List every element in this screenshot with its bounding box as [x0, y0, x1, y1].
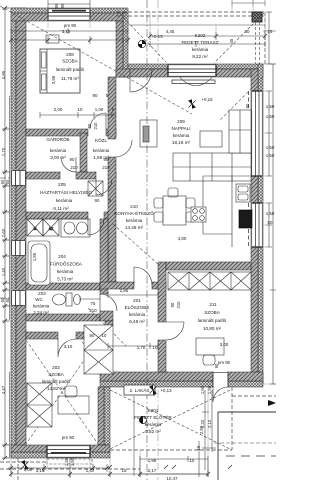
svg-text:6,48 m²: 6,48 m²	[129, 319, 145, 324]
svg-text:2,10: 2,10	[207, 419, 212, 428]
kitchen counter right	[203, 176, 251, 247]
door entry	[213, 387, 228, 402]
dining table kitchen	[163, 196, 186, 225]
wall left exterior	[11, 8, 16, 458]
dim right margin column	[266, 12, 272, 64]
terrace top dim stub	[232, 0, 265, 6]
desk bedroom211	[196, 338, 224, 355]
wall top of living room	[128, 64, 263, 69]
svg-text:kerámia: kerámia	[33, 304, 50, 309]
svg-text:210: 210	[70, 165, 78, 170]
svg-text:209: 209	[177, 119, 185, 124]
svg-text:205: 205	[58, 182, 66, 187]
svg-text:kerámia: kerámia	[93, 148, 110, 153]
svg-text:15: 15	[122, 468, 127, 473]
svg-text:kerámia: kerámia	[173, 133, 190, 138]
svg-text:90: 90	[93, 93, 98, 98]
extension lines right	[263, 64, 276, 384]
door utility-bath	[88, 219, 104, 235]
chair bedroom202	[65, 386, 77, 397]
svg-text:3,00 m²: 3,00 m²	[50, 155, 66, 160]
svg-text:SZOBA: SZOBA	[62, 59, 79, 64]
svg-text:KÖZL: KÖZL	[95, 137, 107, 143]
wall eloszoba west vertical	[100, 219, 108, 294]
svg-text:2,85: 2,85	[120, 288, 129, 293]
wall right exterior	[258, 64, 263, 384]
svg-text:4,45: 4,45	[166, 29, 175, 34]
svg-text:kerámia: kerámia	[145, 422, 162, 427]
dim interior eloszoba	[108, 292, 158, 298]
svg-text:1,75: 1,75	[1, 147, 6, 156]
door terrace to living	[130, 69, 152, 92]
dim right window lines	[266, 64, 276, 384]
washer bath	[27, 219, 43, 236]
svg-text:3,10: 3,10	[62, 29, 71, 34]
section line vertical B	[157, 0, 159, 480]
dim interior bath-wc line	[80, 296, 100, 302]
svg-text:202: 202	[52, 365, 60, 370]
terrace hip dashed left	[120, 14, 166, 62]
svg-text:3,00: 3,00	[220, 342, 229, 347]
bed room208	[40, 49, 80, 93]
svg-text:1,85: 1,85	[32, 252, 37, 261]
wall bedroom202 north	[26, 332, 58, 339]
cooktop	[191, 207, 206, 222]
svg-text:210: 210	[89, 308, 97, 313]
bath double sink	[61, 219, 90, 237]
svg-text:laminált padló: laminált padló	[56, 67, 85, 72]
door entry opening	[213, 372, 228, 388]
svg-text:K201: K201	[148, 408, 159, 413]
svg-text:1,40: 1,40	[1, 267, 6, 276]
svg-text:HÁZTARTÁSI HELYISÉG: HÁZTARTÁSI HELYISÉG	[40, 189, 93, 195]
svg-text:60: 60	[268, 220, 273, 225]
svg-text:4,80: 4,80	[178, 236, 187, 241]
svg-text:1,50: 1,50	[70, 457, 75, 466]
wall wc south	[26, 314, 100, 321]
svg-text:10,47: 10,47	[167, 476, 179, 480]
roof eave dashed bottom right	[232, 395, 276, 397]
svg-text:3,10: 3,10	[64, 344, 73, 349]
svg-text:SZOBA: SZOBA	[204, 310, 221, 315]
wall corridor vertical kitchen-west	[108, 77, 116, 139]
terrace right dashed edge	[264, 12, 266, 64]
svg-text:2,60: 2,60	[1, 228, 6, 237]
svg-text:90: 90	[104, 157, 109, 162]
bottom-left terrace dashes	[0, 458, 46, 480]
window living-room top (terrace sliding door)	[168, 64, 216, 77]
window utility left small	[11, 170, 26, 186]
terrace column axis dashes	[256, 22, 260, 64]
svg-text:1,50: 1,50	[266, 153, 275, 158]
svg-text:3,98: 3,98	[51, 75, 56, 84]
wall vertical terrace-side	[123, 13, 128, 77]
svg-text:90: 90	[245, 103, 250, 108]
wall eloszoba north / kitchen south	[100, 282, 134, 289]
svg-text:laminált padló: laminált padló	[198, 318, 227, 323]
svg-text:95: 95	[54, 3, 59, 8]
svg-text:ELŐSZOBA: ELŐSZOBA	[125, 304, 151, 310]
wardrobe bedroom202	[27, 383, 52, 427]
svg-text:1,50: 1,50	[207, 385, 212, 394]
right margin line y31	[263, 30, 276, 32]
svg-text:FÜRDŐSZOBA: FÜRDŐSZOBA	[50, 261, 83, 267]
dim interior bedroom208	[40, 112, 116, 118]
svg-text:1,00: 1,00	[24, 467, 33, 472]
door kozl	[90, 113, 106, 129]
terrace roof edge dashed top	[116, 12, 265, 16]
svg-text:60: 60	[5, 179, 10, 184]
svg-text:210: 210	[130, 204, 138, 209]
door bedroom211	[166, 322, 184, 340]
roof hip diagonal from top-left corner	[0, 6, 192, 114]
svg-text:90: 90	[87, 123, 92, 128]
svg-text:pm 90: pm 90	[64, 23, 77, 28]
svg-text:KONYHA-ÉTKEZŐ: KONYHA-ÉTKEZŐ	[114, 210, 154, 216]
svg-text:95: 95	[60, 3, 65, 8]
window bath left small	[11, 240, 26, 256]
wall utility south / bath north	[26, 212, 88, 219]
section symbol bottom	[139, 416, 146, 423]
svg-text:kerámia: kerámia	[129, 312, 146, 317]
svg-text:SZOBA: SZOBA	[48, 372, 65, 377]
utility appliances	[88, 181, 103, 196]
window bedroom208 top	[48, 8, 90, 21]
terrace column	[252, 12, 262, 22]
wall south of bedroom 211	[100, 381, 263, 387]
benchmark symbol terrace	[138, 40, 146, 48]
dim chain top	[11, 36, 265, 40]
svg-text:kerámia: kerámia	[192, 47, 209, 52]
bench room208	[46, 35, 59, 43]
toilet wc	[66, 293, 72, 306]
svg-text:10: 10	[78, 107, 83, 112]
tv cabinet living	[140, 120, 157, 147]
svg-text:kerámia: kerámia	[57, 269, 74, 274]
svg-text:GARDRÓB: GARDRÓB	[46, 136, 69, 142]
door eloszoba-kitchen	[134, 267, 152, 285]
svg-text:15: 15	[196, 445, 201, 450]
svg-text:90: 90	[95, 198, 100, 203]
window sliding panel below wall	[172, 80, 215, 83]
svg-text:SZ: SZ	[49, 227, 54, 231]
window living-room right large	[251, 91, 263, 176]
svg-text:+0,13: +0,13	[160, 388, 172, 393]
extension lines top	[11, 3, 265, 33]
svg-text:kerámia: kerámia	[50, 148, 67, 153]
dim second top row	[11, 28, 265, 47]
svg-text:1,00: 1,00	[95, 107, 104, 112]
wall top-left exterior	[11, 8, 128, 13]
svg-text:WC: WC	[35, 297, 43, 302]
svg-text:1,50: 1,50	[64, 457, 69, 466]
porch hip dashed X	[110, 390, 230, 449]
window sill dashed below	[47, 459, 92, 464]
svg-text:K202: K202	[195, 33, 206, 38]
desk bedroom202	[58, 396, 89, 414]
wall gardrob-kozl divider	[80, 133, 87, 172]
dim line top margin y3	[48, 0, 90, 8]
svg-text:90: 90	[170, 302, 175, 307]
svg-text:45: 45	[229, 38, 234, 43]
elevation marker porch	[150, 385, 157, 395]
extension lines left	[2, 8, 11, 458]
dryer bath	[43, 219, 59, 236]
svg-text:11,78 m²: 11,78 m²	[61, 76, 79, 81]
neighbour hidden line right	[214, 442, 276, 444]
svg-text:30: 30	[245, 29, 250, 34]
terrace floor edge line	[128, 24, 265, 26]
svg-text:5,73 m²: 5,73 m²	[57, 277, 73, 282]
dining chairs	[154, 198, 163, 208]
dim bottom chains	[8, 464, 110, 472]
svg-text:210: 210	[93, 122, 98, 130]
chair bedroom211	[203, 355, 215, 365]
svg-text:2,90: 2,90	[199, 425, 204, 434]
svg-text:4,47: 4,47	[1, 385, 6, 394]
label apartment2 box	[124, 385, 155, 395]
svg-text:210: 210	[102, 165, 110, 170]
svg-text:15: 15	[190, 458, 195, 463]
svg-text:90: 90	[90, 333, 95, 338]
svg-text:1,50: 1,50	[266, 211, 275, 216]
svg-text:18,16 m²: 18,16 m²	[172, 140, 191, 145]
svg-text:2,17: 2,17	[148, 468, 157, 473]
svg-text:2,34 m²: 2,34 m²	[33, 310, 49, 315]
wall bath/wc divider	[26, 283, 100, 290]
svg-text:+0,15: +0,15	[201, 97, 213, 102]
svg-text:15: 15	[268, 29, 273, 34]
wall bedroom211 north	[166, 262, 251, 270]
svg-text:9,22 m²: 9,22 m²	[192, 54, 208, 59]
dim porch vertical lines	[202, 390, 216, 470]
roof hip living right	[220, 77, 263, 120]
fridge dark kitchen	[239, 210, 252, 228]
bottom eave dashed long	[0, 468, 140, 470]
svg-text:10: 10	[102, 333, 107, 338]
svg-text:201: 201	[133, 298, 141, 303]
svg-text:6,11 m²: 6,11 m²	[53, 206, 69, 211]
wall bottom-left exterior	[11, 452, 110, 458]
roof hip entry X	[82, 342, 113, 374]
window swing arc below	[180, 78, 212, 86]
neighbour centreline dashed	[226, 455, 276, 457]
wall gardrob south	[26, 172, 60, 179]
svg-text:laminált padló: laminált padló	[42, 379, 71, 384]
svg-text:FEDETT ELŐTÉR: FEDETT ELŐTÉR	[134, 414, 172, 420]
svg-text:1,50: 1,50	[266, 104, 275, 109]
svg-text:1,50: 1,50	[266, 114, 275, 119]
dim bottom row far	[11, 471, 208, 477]
gutter arrow marker right	[268, 400, 276, 406]
svg-text:+0,13: +0,13	[151, 34, 163, 39]
elevation marker living	[189, 99, 196, 109]
door gardrob	[61, 157, 76, 172]
svg-text:1,50: 1,50	[266, 145, 275, 150]
window bedroom202 bottom	[47, 445, 90, 458]
svg-text:60: 60	[5, 297, 10, 302]
svg-text:210: 210	[176, 301, 181, 309]
sink kitchen	[236, 184, 250, 202]
svg-text:1,70: 1,70	[137, 345, 146, 350]
neighbour building outline bottom-right	[218, 412, 276, 480]
bathtub	[28, 241, 50, 285]
svg-text:NAPPALI: NAPPALI	[171, 126, 190, 131]
svg-text:211: 211	[209, 302, 217, 307]
svg-text:1,50: 1,50	[200, 385, 205, 394]
wardrobe row bedroom211	[168, 272, 251, 290]
sofa living right	[229, 110, 251, 153]
door wc	[100, 294, 117, 311]
section line vertical A	[146, 0, 148, 480]
porch dashed outline	[110, 387, 232, 450]
dim axis stubs left	[0, 178, 11, 298]
svg-text:13,82 m²: 13,82 m²	[47, 386, 66, 391]
wall bedroom211 west vertical	[158, 262, 166, 322]
svg-text:kerámia: kerámia	[126, 218, 143, 223]
closet entry X	[84, 325, 113, 374]
svg-text:pm 90: pm 90	[218, 360, 231, 365]
svg-text:5,82 m²: 5,82 m²	[145, 429, 161, 434]
terrace hip dashed right	[214, 13, 264, 63]
roof hip bath diag	[88, 308, 126, 346]
svg-text:M: M	[34, 227, 37, 231]
svg-text:10,80 m²: 10,80 m²	[203, 326, 222, 331]
dim extension line window centre	[69, 458, 71, 478]
svg-text:pm 90: pm 90	[62, 435, 75, 440]
extension lines bottom	[11, 387, 208, 477]
wall porch-side vertical	[104, 387, 110, 445]
svg-text:1,98: 1,98	[148, 458, 157, 463]
elevation marker bottom-left terrace	[22, 460, 29, 470]
dim extension porch line	[133, 396, 135, 476]
window kitchen right	[251, 203, 263, 247]
window wc left small	[11, 290, 26, 306]
svg-text:208: 208	[66, 52, 74, 57]
coffee table living	[200, 131, 222, 147]
svg-text:3,19: 3,19	[36, 468, 45, 473]
svg-text:1,47: 1,47	[86, 468, 95, 473]
svg-text:kerámia: kerámia	[56, 198, 73, 203]
wall bedroom208 south	[26, 129, 88, 136]
sofa living bottom	[173, 153, 251, 181]
kitchen peninsula counter	[203, 176, 232, 234]
roof hip kitchen	[113, 224, 160, 266]
dim left chain	[5, 8, 10, 458]
door kozl-utility	[96, 179, 112, 195]
svg-text:90: 90	[70, 157, 75, 162]
door kozl-kitchen	[116, 140, 132, 157]
roof hip bedroom202 X	[26, 340, 98, 444]
svg-text:2. LAKÁS: 2. LAKÁS	[130, 387, 150, 393]
svg-text:204: 204	[58, 254, 66, 259]
door bedroom202	[58, 339, 76, 357]
svg-text:10: 10	[153, 345, 158, 350]
wc basin	[74, 295, 81, 305]
svg-text:2,00: 2,00	[54, 107, 63, 112]
svg-text:14,48 m²: 14,48 m²	[125, 225, 144, 230]
svg-text:203: 203	[38, 291, 46, 296]
svg-text:75: 75	[91, 301, 96, 306]
svg-text:4,85: 4,85	[1, 70, 6, 79]
